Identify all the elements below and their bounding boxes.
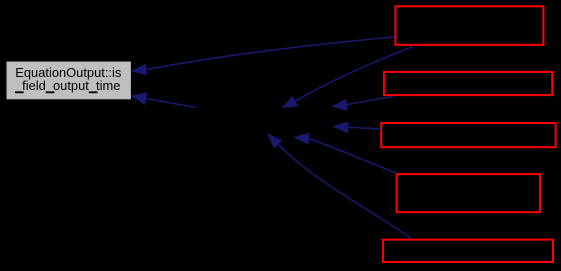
svg-text:_field_output_time: _field_output_time bbox=[14, 78, 120, 93]
arrowhead A5 bbox=[334, 122, 348, 132]
caller node 3 (truncated, red) bbox=[381, 123, 555, 147]
wire E2 (hidden node -> grey node) bbox=[146, 99, 196, 108]
arrowhead A4 bbox=[333, 100, 348, 110]
arrowhead A2 bbox=[132, 93, 147, 105]
wire E5 (node3 -> hidden node) bbox=[348, 127, 381, 129]
caller node 1 (truncated, red) bbox=[395, 6, 543, 45]
wire E7 (node5 -> hidden node) bbox=[278, 144, 411, 238]
wire E3 (node1 -> hidden node) bbox=[294, 47, 413, 103]
edge node1 -> grey node bbox=[132, 37, 413, 239]
caller node 5 (truncated, red) bbox=[383, 240, 553, 262]
arrowhead A3 bbox=[283, 97, 298, 108]
wire E4 (node2 -> hidden node) bbox=[347, 97, 394, 105]
wire E6 (node4 -> hidden node) bbox=[308, 139, 396, 173]
arrowhead A7 bbox=[268, 134, 281, 148]
caller node 2 (truncated, red) bbox=[384, 72, 552, 95]
wire E1 bbox=[146, 37, 395, 70]
arrowhead A1 bbox=[132, 64, 146, 74]
arrowhead A6 bbox=[294, 133, 308, 143]
node EquationOutput::is_field_output_time bbox=[6, 61, 131, 100]
caller node 4 (truncated, red) bbox=[397, 174, 540, 212]
